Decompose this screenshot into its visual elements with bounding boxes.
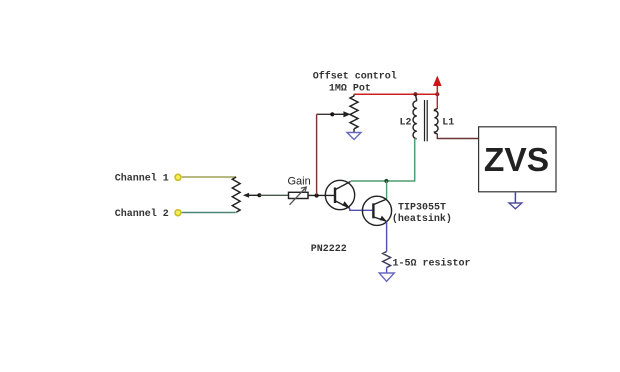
wire R3 bottom to ground bbox=[353, 129, 355, 133]
wire Channel2 to pot R1 bottom bbox=[182, 212, 236, 214]
junction dot wiper R1 bbox=[257, 193, 261, 197]
potentiometer R3 body (offset 1M) bbox=[350, 96, 358, 129]
block ZVS bbox=[479, 127, 556, 192]
junction dot L2 top bbox=[413, 92, 417, 96]
junction dot base node bbox=[315, 193, 319, 197]
transistor Q2 TIP3055T bbox=[362, 196, 391, 225]
wire Q2 emitter to R4 (blue) bbox=[386, 221, 388, 251]
wire red supply rail bbox=[354, 93, 437, 95]
svg-text:1MΩ Pot: 1MΩ Pot bbox=[329, 84, 371, 95]
terminal J2 (Channel 2) bbox=[175, 210, 181, 216]
wire R4 to ground bbox=[386, 268, 388, 274]
rheostat R2 arrow bbox=[290, 187, 307, 205]
wire green collector rail bbox=[351, 139, 415, 181]
transistor Q1 PN2222 bbox=[325, 180, 354, 209]
inductor L1 (secondary) bbox=[434, 109, 438, 134]
wire Gain to Q1 base bbox=[308, 194, 335, 196]
inductor L2 (primary) bbox=[413, 101, 417, 139]
svg-text:L1: L1 bbox=[442, 118, 454, 129]
wire offset wiper to base node (dark red) bbox=[316, 114, 318, 195]
junction dot Q2 collector node bbox=[384, 179, 388, 183]
svg-text:Channel 2: Channel 2 bbox=[115, 208, 169, 220]
svg-text:(heatsink): (heatsink) bbox=[392, 213, 452, 225]
wire green L2 bottom connector bbox=[415, 137, 417, 140]
svg-text:1-5Ω resistor: 1-5Ω resistor bbox=[393, 257, 471, 269]
ground below R3 bbox=[347, 133, 361, 140]
potentiometer R1 body (channel mixer) bbox=[232, 177, 240, 212]
wire L2 top lead bbox=[415, 94, 416, 101]
svg-text:Channel 1: Channel 1 bbox=[115, 172, 169, 184]
rheostat R2 (Gain) body bbox=[289, 192, 309, 198]
junction dot offset wiper bbox=[330, 112, 334, 116]
potentiometer R3 wiper arrow (offset) bbox=[332, 111, 350, 117]
wire Q1 emitter to Q2 base (blue) bbox=[350, 208, 374, 210]
terminal J1 (Channel 1) bbox=[175, 174, 181, 180]
wire L1 top lead (red) bbox=[436, 94, 438, 109]
wire ZVS to ground bbox=[514, 192, 516, 204]
wire Channel1 to pot R1 top bbox=[182, 176, 236, 178]
ground below ZVS bbox=[509, 203, 522, 209]
svg-text:Gain: Gain bbox=[288, 175, 311, 187]
supply arrow (up, red) bbox=[433, 76, 442, 95]
svg-text:L2: L2 bbox=[400, 118, 412, 129]
transformer core bbox=[425, 100, 428, 141]
svg-text:ZVS: ZVS bbox=[484, 142, 549, 179]
svg-text:Offset control: Offset control bbox=[313, 70, 397, 82]
wire R3 top stub bbox=[353, 94, 355, 96]
resistor R4 (1-5 ohm) bbox=[383, 252, 391, 268]
wire L1 bottom to ZVS (maroon) bbox=[437, 134, 478, 139]
svg-text:TIP3055T: TIP3055T bbox=[398, 203, 446, 214]
potentiometer R1 wiper arrow bbox=[243, 193, 260, 198]
svg-text:PN2222: PN2222 bbox=[311, 244, 347, 255]
wire wiper to Gain rheostat bbox=[259, 194, 288, 196]
junction dot supply arrow node bbox=[435, 92, 439, 96]
ground below R4 bbox=[379, 273, 394, 281]
wire green to Q2 collector bbox=[386, 181, 388, 199]
